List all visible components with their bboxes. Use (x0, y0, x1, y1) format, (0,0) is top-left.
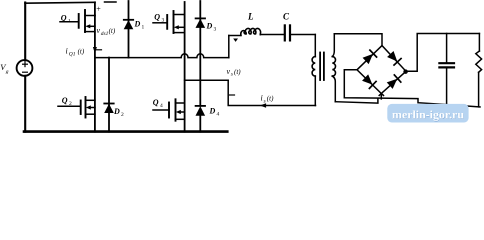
wire Q1 drain up (94, 2, 96, 15)
bridge ribbon loop right corner (404, 70, 407, 73)
svg-text:1: 1 (142, 25, 145, 31)
capacitor C (series) (284, 25, 286, 40)
wire Q3 source rail down (184, 15, 186, 132)
svg-text:Q1: Q1 (69, 52, 76, 58)
svg-text:4: 4 (160, 103, 163, 109)
wire L to C (260, 34, 284, 36)
transformer primary bottom lead (314, 76, 316, 105)
wire C to transformer (291, 34, 315, 36)
svg-text:(t): (t) (109, 27, 116, 35)
transformer primary lead (314, 35, 316, 57)
svg-text:(t): (t) (78, 48, 85, 56)
svg-text:i: i (261, 94, 263, 103)
bridge diode upper-right (387, 51, 401, 65)
svg-text:+: + (96, 4, 101, 13)
svg-text:Q: Q (154, 13, 160, 22)
svg-text:D: D (209, 107, 216, 116)
diode D2 (104, 58, 124, 132)
bridge diode lower-right (386, 75, 400, 89)
diode D1 (124, 1, 145, 58)
wire Q2 rail (94, 58, 96, 132)
wire node A horizontal with hops (95, 54, 229, 58)
svg-text:4: 4 (217, 112, 220, 118)
svg-text:Q: Q (61, 14, 67, 23)
wire secondary top to bridge (334, 34, 382, 46)
wire Q3 drain up (184, 2, 186, 15)
wire node A up to tank (228, 36, 230, 58)
svg-text:D: D (134, 20, 141, 29)
bridge diode upper-left (362, 50, 376, 64)
voltage source Vg (17, 60, 33, 76)
transistor Q4 (153, 98, 185, 121)
wire node B horizontal (185, 79, 229, 81)
svg-text:i: i (66, 47, 68, 56)
wire bridge left corner to bottom (344, 70, 480, 107)
node - of vs (230, 94, 235, 96)
wire bridge right corner to load top (406, 34, 479, 72)
svg-text:1: 1 (68, 18, 71, 24)
diode D4 (196, 106, 220, 132)
diode D3 (196, 1, 217, 106)
svg-text:3: 3 (214, 27, 217, 33)
current arrow is(t) (260, 103, 266, 107)
wire secondary bottom stub (335, 99, 378, 104)
transistor Q3 (153, 11, 185, 33)
capacitor output (446, 34, 448, 63)
polarity marks inside Vg (23, 62, 28, 72)
resistor load (478, 34, 480, 52)
svg-text:g: g (6, 69, 9, 75)
wire bridge bottom stub (380, 94, 382, 99)
node - of vds1 (97, 49, 102, 51)
svg-text:C: C (283, 12, 290, 22)
current arrow iQ1 (93, 47, 97, 54)
wire node B down and right (is wire) (228, 80, 315, 105)
svg-text:2: 2 (121, 112, 124, 118)
svg-text:D: D (206, 22, 213, 31)
svg-text:(t): (t) (234, 68, 241, 76)
transformer secondary bottom lead (332, 76, 335, 102)
transistor Q2 (58, 96, 95, 118)
svg-text:Q: Q (62, 96, 68, 105)
vs arrow mark (233, 39, 238, 42)
wire Vg bottom (24, 76, 26, 132)
svg-text:L: L (247, 12, 254, 22)
svg-text:3: 3 (162, 17, 165, 23)
transformer core (319, 53, 321, 81)
transformer secondary top lead (332, 34, 334, 57)
diode bridge diamond (357, 46, 406, 94)
transformer secondary winding (332, 57, 335, 77)
transistor Q1 (60, 10, 95, 32)
inductor L (241, 28, 261, 35)
bridge ribbon crossing at bottom corner (381, 94, 383, 96)
wire top rail (25, 1, 95, 4)
svg-text:Q: Q (153, 98, 159, 107)
svg-text:(t): (t) (267, 95, 274, 103)
svg-text:s: s (231, 72, 233, 78)
svg-text:s: s (264, 98, 266, 104)
svg-text:merlin-igor.ru: merlin-igor.ru (392, 108, 464, 122)
wire bottom rail (24, 130, 227, 133)
wire Vg top (24, 3, 26, 61)
svg-text:D: D (113, 107, 120, 116)
transformer primary winding (312, 57, 315, 77)
wire Q1 source down to node A (94, 16, 96, 58)
svg-text:ds1: ds1 (101, 31, 109, 37)
svg-text:2: 2 (69, 101, 72, 107)
watermark merlin-igor.ru (387, 104, 468, 123)
bridge diode lower-left (362, 74, 376, 88)
